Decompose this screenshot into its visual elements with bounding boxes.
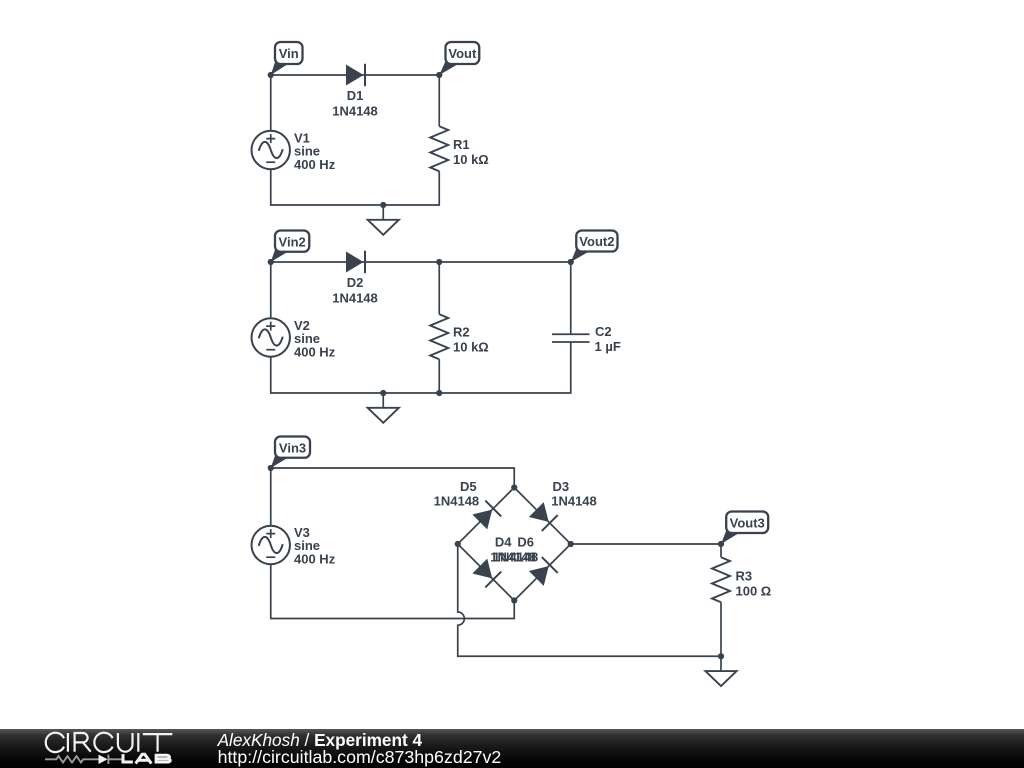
svg-text:1 µF: 1 µF [595,339,621,354]
svg-text:R3: R3 [736,569,753,584]
svg-text:C2: C2 [595,324,612,339]
svg-text:D3: D3 [552,479,569,494]
svg-text:D6: D6 [517,535,534,550]
svg-text:R2: R2 [453,324,470,339]
svg-text:D4: D4 [495,535,512,550]
svg-text:Vin: Vin [279,46,299,61]
svg-text:400 Hz: 400 Hz [294,157,336,172]
svg-text:D1: D1 [347,88,364,103]
svg-text:400 Hz: 400 Hz [294,552,336,567]
svg-text:1N4148: 1N4148 [434,494,480,509]
svg-text:1N4148: 1N4148 [332,104,378,119]
svg-text:R1: R1 [453,137,470,152]
svg-text:Vout3: Vout3 [730,515,765,530]
svg-text:1N4148: 1N4148 [493,550,539,565]
svg-text:100 Ω: 100 Ω [736,584,772,599]
svg-text:Vin3: Vin3 [279,440,306,455]
svg-text:Vin2: Vin2 [279,234,306,249]
svg-text:10 kΩ: 10 kΩ [453,339,489,354]
svg-text:Vout2: Vout2 [579,234,614,249]
svg-text:http://circuitlab.com/c873hp6z: http://circuitlab.com/c873hp6zd27v2 [218,747,502,767]
svg-text:D5: D5 [460,479,477,494]
svg-text:10 kΩ: 10 kΩ [453,152,489,167]
svg-text:1N4148: 1N4148 [332,291,378,306]
svg-text:D2: D2 [347,275,364,290]
svg-text:400 Hz: 400 Hz [294,345,336,360]
svg-text:Vout: Vout [448,46,477,61]
svg-text:1N4148: 1N4148 [551,494,597,509]
